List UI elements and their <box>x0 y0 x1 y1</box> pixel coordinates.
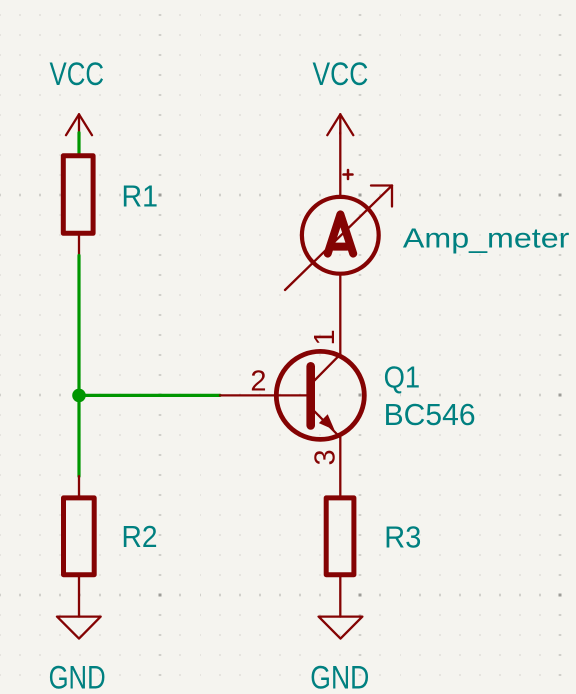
svg-text:3: 3 <box>310 449 342 465</box>
svg-text:Amp_meter: Amp_meter <box>403 223 570 254</box>
ammeter A glyph <box>328 214 354 253</box>
ammeter MES1 plus marker <box>344 170 353 179</box>
transistor Q1 base pin <box>220 394 308 396</box>
svg-text:2: 2 <box>250 366 266 398</box>
resistor R1 <box>63 156 93 256</box>
transistor Q1 body <box>276 351 364 439</box>
transistor Q1 collector stroke <box>311 354 341 384</box>
transistor Q1 emitter stroke <box>311 408 341 438</box>
svg-text:Q1: Q1 <box>384 360 421 395</box>
resistor R2 <box>64 476 95 616</box>
svg-text:BC546: BC546 <box>384 397 476 432</box>
resistor R3 <box>326 498 354 617</box>
ground (right) <box>319 617 363 639</box>
wire ammeter to Q1 collector <box>339 274 341 354</box>
svg-text:1: 1 <box>309 329 341 345</box>
svg-text:VCC: VCC <box>313 56 369 92</box>
svg-text:R2: R2 <box>122 519 158 554</box>
wire VCC to ammeter <box>339 133 341 197</box>
svg-text:R3: R3 <box>384 519 421 554</box>
power symbol VCC (left) <box>66 114 92 135</box>
wire R1 to junction to R2 <box>77 256 80 477</box>
junction <box>72 389 86 403</box>
ammeter diagonal arrow <box>285 186 392 291</box>
wire VCC to R1 <box>77 133 80 155</box>
wire Q1 emitter to R3 <box>339 438 341 496</box>
svg-text:VCC: VCC <box>50 56 105 92</box>
svg-text:GND: GND <box>49 659 106 694</box>
svg-text:R1: R1 <box>122 179 159 214</box>
power symbol VCC (right) <box>327 114 353 135</box>
svg-text:GND: GND <box>310 659 369 694</box>
ammeter MES1 body <box>302 197 379 274</box>
wire junction to Q1 base <box>79 394 220 397</box>
ground (left) <box>57 617 101 639</box>
transistor Q1 base bar <box>306 366 315 425</box>
